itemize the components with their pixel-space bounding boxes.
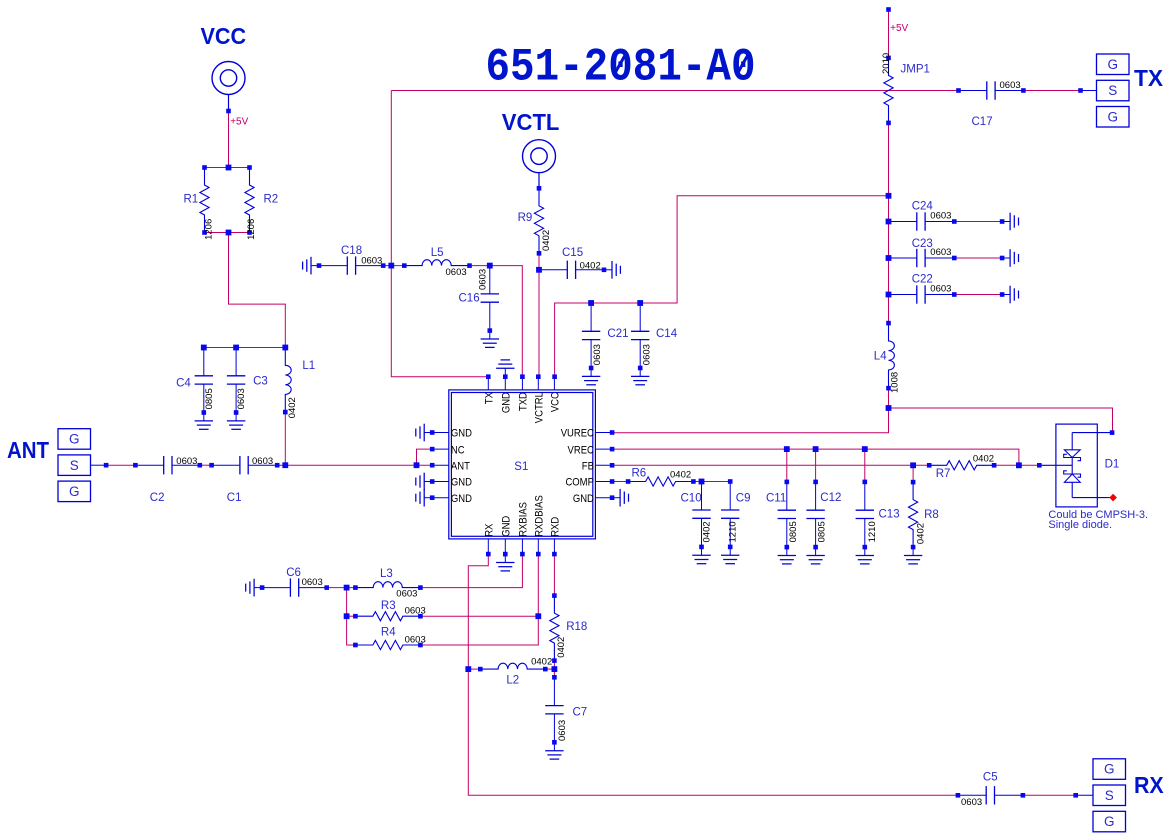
svg-text:NC: NC xyxy=(451,443,465,456)
svg-text:0603: 0603 xyxy=(930,211,951,222)
svg-text:0805: 0805 xyxy=(788,521,799,542)
svg-text:G: G xyxy=(1104,762,1115,777)
svg-text:0402: 0402 xyxy=(915,523,926,544)
svg-text:C7: C7 xyxy=(573,707,588,719)
svg-text:0402: 0402 xyxy=(541,230,552,251)
svg-text:R4: R4 xyxy=(381,627,396,639)
svg-text:C15: C15 xyxy=(562,247,583,259)
svg-text:VCTL: VCTL xyxy=(502,110,560,136)
svg-text:GND: GND xyxy=(451,427,472,440)
svg-text:R6: R6 xyxy=(632,467,647,479)
svg-text:R1: R1 xyxy=(184,194,199,206)
svg-text:C5: C5 xyxy=(983,772,998,784)
svg-text:C21: C21 xyxy=(607,328,628,340)
svg-text:C4: C4 xyxy=(176,378,191,390)
svg-text:C9: C9 xyxy=(736,493,751,505)
svg-text:C10: C10 xyxy=(681,493,702,505)
svg-text:RX: RX xyxy=(1134,772,1164,798)
svg-text:L5: L5 xyxy=(431,247,444,259)
svg-text:D1: D1 xyxy=(1105,459,1120,471)
svg-text:TXD: TXD xyxy=(517,392,530,411)
svg-text:0603: 0603 xyxy=(405,606,426,617)
svg-text:L2: L2 xyxy=(506,675,519,687)
svg-text:0603: 0603 xyxy=(396,588,417,599)
svg-text:VUREC: VUREC xyxy=(561,427,595,440)
svg-text:0402: 0402 xyxy=(701,521,712,542)
svg-text:0603: 0603 xyxy=(302,577,323,588)
svg-text:C12: C12 xyxy=(820,492,841,504)
svg-text:0603: 0603 xyxy=(961,797,982,808)
svg-text:C3: C3 xyxy=(253,376,268,388)
svg-text:G: G xyxy=(69,432,80,447)
svg-text:Single diode.: Single diode. xyxy=(1048,519,1112,531)
svg-text:ANT: ANT xyxy=(7,437,50,463)
svg-text:0402: 0402 xyxy=(973,454,994,465)
svg-text:0402: 0402 xyxy=(287,397,298,418)
svg-text:+5V: +5V xyxy=(890,23,908,34)
svg-text:G: G xyxy=(1107,57,1118,72)
svg-text:RXDBIAS: RXDBIAS xyxy=(533,495,546,537)
svg-text:G: G xyxy=(1104,814,1115,829)
svg-text:L1: L1 xyxy=(302,360,315,372)
svg-text:0603: 0603 xyxy=(641,344,652,365)
svg-text:651-2081-A0: 651-2081-A0 xyxy=(486,42,756,94)
svg-text:VCC: VCC xyxy=(201,23,247,49)
svg-text:R2: R2 xyxy=(264,194,279,206)
svg-text:1008: 1008 xyxy=(890,372,901,393)
svg-text:0603: 0603 xyxy=(477,269,488,290)
svg-text:GND: GND xyxy=(573,492,594,505)
svg-text:1210: 1210 xyxy=(867,521,878,542)
svg-text:GND: GND xyxy=(500,392,513,413)
svg-text:RXD: RXD xyxy=(549,516,562,536)
svg-text:0402: 0402 xyxy=(580,261,601,272)
svg-text:0603: 0603 xyxy=(930,247,951,258)
svg-text:VCTRL: VCTRL xyxy=(533,392,546,423)
svg-text:0603: 0603 xyxy=(361,255,382,266)
svg-text:0805: 0805 xyxy=(816,521,827,542)
svg-text:TX: TX xyxy=(483,392,496,404)
svg-text:0805: 0805 xyxy=(204,388,215,409)
svg-text:G: G xyxy=(69,484,80,499)
svg-text:0603: 0603 xyxy=(236,388,247,409)
svg-text:0402: 0402 xyxy=(556,637,567,658)
svg-text:TX: TX xyxy=(1134,65,1164,91)
svg-text:0603: 0603 xyxy=(252,456,273,467)
svg-text:JMP1: JMP1 xyxy=(901,64,930,76)
svg-text:C14: C14 xyxy=(656,328,678,340)
svg-text:C11: C11 xyxy=(766,493,786,505)
svg-text:R8: R8 xyxy=(924,509,939,521)
svg-text:+5V: +5V xyxy=(230,117,248,128)
svg-text:1206: 1206 xyxy=(246,219,257,240)
svg-text:VCC: VCC xyxy=(549,392,562,412)
svg-text:1210: 1210 xyxy=(727,521,738,542)
svg-text:0402: 0402 xyxy=(670,470,691,481)
svg-text:L4: L4 xyxy=(874,351,887,363)
svg-text:COMP: COMP xyxy=(565,476,593,489)
svg-text:C17: C17 xyxy=(972,116,993,128)
svg-text:R18: R18 xyxy=(566,621,587,633)
svg-text:S1: S1 xyxy=(514,461,528,473)
svg-text:C6: C6 xyxy=(286,567,301,579)
svg-text:GND: GND xyxy=(500,515,513,536)
svg-text:R3: R3 xyxy=(381,600,396,612)
svg-text:VREC: VREC xyxy=(568,443,595,456)
svg-text:GND: GND xyxy=(451,492,472,505)
svg-text:RXBIAS: RXBIAS xyxy=(517,502,530,537)
svg-text:R7: R7 xyxy=(936,468,951,480)
svg-text:0603: 0603 xyxy=(446,267,467,278)
svg-text:G: G xyxy=(1107,109,1118,124)
svg-text:C2: C2 xyxy=(150,492,165,504)
svg-text:RX: RX xyxy=(483,524,496,537)
svg-text:C18: C18 xyxy=(341,245,362,257)
svg-text:C1: C1 xyxy=(227,492,242,504)
svg-text:S: S xyxy=(1105,788,1114,803)
svg-text:C16: C16 xyxy=(459,293,480,305)
svg-text:0603: 0603 xyxy=(930,284,951,295)
svg-text:GND: GND xyxy=(451,476,472,489)
svg-text:FB: FB xyxy=(582,460,594,473)
svg-text:0603: 0603 xyxy=(405,635,426,646)
svg-text:0402: 0402 xyxy=(531,657,552,668)
svg-text:2010: 2010 xyxy=(881,53,892,74)
svg-text:1206: 1206 xyxy=(204,219,215,240)
svg-text:L3: L3 xyxy=(380,568,393,580)
svg-text:S: S xyxy=(1108,83,1117,98)
svg-text:0603: 0603 xyxy=(176,456,197,467)
svg-text:S: S xyxy=(70,458,79,473)
svg-text:0603: 0603 xyxy=(1000,80,1021,91)
svg-text:ANT: ANT xyxy=(451,460,470,473)
svg-text:C13: C13 xyxy=(879,509,900,521)
svg-text:0603: 0603 xyxy=(592,344,603,365)
svg-text:R9: R9 xyxy=(518,212,533,224)
svg-text:0603: 0603 xyxy=(557,720,568,741)
